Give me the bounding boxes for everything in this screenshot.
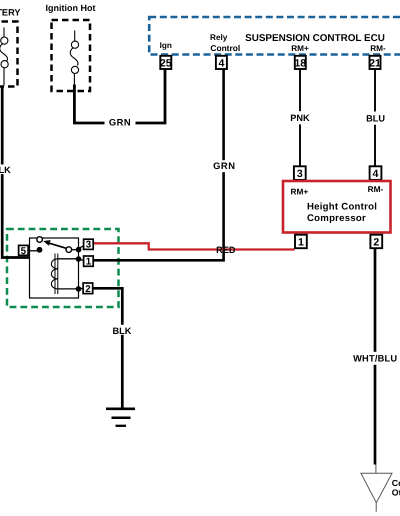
svg-text:WHT/BLU: WHT/BLU (353, 354, 397, 364)
svg-text:BLK: BLK (113, 326, 132, 336)
svg-text:2: 2 (373, 237, 379, 249)
svg-text:2: 2 (85, 284, 91, 295)
svg-text:1: 1 (86, 257, 92, 268)
svg-text:4: 4 (218, 58, 224, 70)
svg-text:RM+: RM+ (291, 44, 309, 53)
svg-text:Compressor: Compressor (307, 213, 366, 224)
svg-text:4: 4 (373, 168, 379, 180)
svg-text:3: 3 (297, 168, 303, 180)
svg-text:Other Pages: Other Pages (392, 487, 400, 497)
svg-text:RED: RED (216, 245, 236, 255)
svg-text:RM-: RM- (370, 44, 386, 53)
svg-text:BLU: BLU (366, 114, 385, 124)
svg-text:Height Control: Height Control (307, 202, 377, 213)
svg-text:5: 5 (21, 246, 27, 257)
svg-text:SUSPENSION CONTROL ECU: SUSPENSION CONTROL ECU (245, 33, 385, 44)
svg-text:Rely: Rely (210, 33, 228, 42)
svg-text:PNK: PNK (290, 113, 310, 123)
svg-text:GRN: GRN (213, 160, 235, 171)
svg-text:25: 25 (160, 58, 172, 70)
svg-text:18: 18 (294, 58, 306, 70)
svg-text:Control: Control (210, 43, 240, 53)
svg-text:BATTERY: BATTERY (0, 7, 21, 17)
svg-text:3: 3 (86, 240, 92, 251)
svg-text:21: 21 (369, 58, 381, 70)
svg-text:RM+: RM+ (291, 186, 309, 196)
svg-text:RM-: RM- (368, 184, 384, 194)
svg-text:GRN: GRN (109, 117, 131, 128)
svg-text:BLK: BLK (0, 165, 11, 175)
svg-text:Ignition Hot: Ignition Hot (46, 3, 96, 13)
svg-text:1: 1 (298, 237, 304, 249)
svg-text:Ign: Ign (160, 41, 172, 50)
